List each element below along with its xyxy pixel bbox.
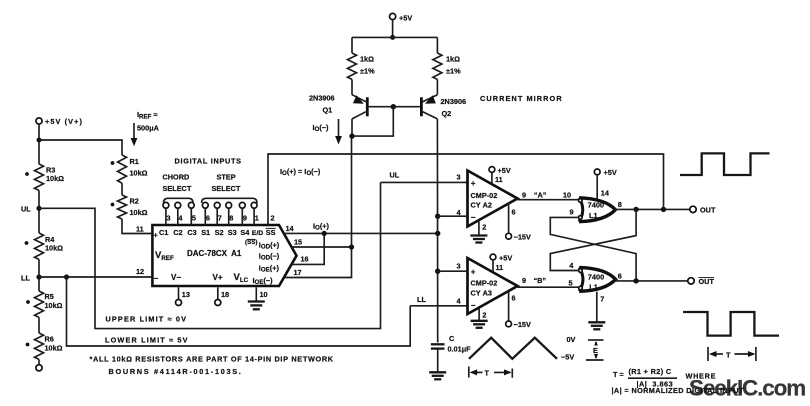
op-amp comparator U A2 CMP-02 (468, 171, 518, 227)
svg-text:C3: C3 (187, 228, 196, 237)
svg-text:1kΩ: 1kΩ (446, 55, 460, 64)
pin 13 V- terminal (176, 287, 190, 305)
resistor 1k 1% right (433, 53, 461, 79)
svg-text:R1: R1 (130, 157, 139, 166)
svg-text:DIGITAL INPUTS: DIGITAL INPUTS (175, 157, 242, 166)
svg-text:16: 16 (301, 255, 309, 264)
wire left rail top (38, 124, 40, 164)
svg-text:S1: S1 (201, 228, 210, 237)
node UL (21, 205, 42, 214)
svg-text:6: 6 (512, 294, 516, 303)
svg-text:10kΩ: 10kΩ (45, 344, 63, 353)
note all 10k resistors (90, 355, 334, 377)
svg-text:±1%: ±1% (446, 67, 461, 76)
wire mirror top rail (352, 36, 437, 38)
DAC A1 DAC-78CX body (152, 225, 296, 286)
input terminals pins 3 4 5 6 7 8 9 1 (163, 202, 259, 225)
svg-text:14: 14 (286, 224, 295, 233)
svg-text:CMP-02: CMP-02 (471, 279, 498, 288)
ground below capacitor (429, 372, 446, 379)
svg-text:R6: R6 (45, 335, 54, 344)
svg-text:+5V: +5V (604, 168, 617, 177)
svg-text:BOURNS #4114R-001-103S.: BOURNS #4114R-001-103S. (109, 367, 243, 376)
node A2 pin4 tap (435, 214, 440, 219)
wire R4 to LL (38, 259, 40, 291)
svg-text:+: + (471, 268, 476, 277)
svg-text:R2: R2 (130, 197, 139, 206)
svg-text:15: 15 (294, 238, 302, 247)
node LL (21, 274, 42, 283)
wire Q1 collector down (351, 119, 353, 136)
svg-text:V+: V+ (213, 273, 223, 282)
svg-text:7: 7 (600, 295, 604, 304)
svg-text:10: 10 (260, 290, 268, 299)
wire R6 to bottom terminal (38, 359, 40, 364)
svg-text:9: 9 (522, 191, 526, 200)
svg-text:OUT: OUT (699, 277, 715, 286)
svg-text:9: 9 (570, 208, 574, 217)
svg-text:10kΩ: 10kΩ (130, 169, 148, 178)
svg-text:0.01μF: 0.01μF (448, 345, 472, 354)
pin 2 SS feedback wire (268, 154, 664, 225)
resistor R4 (25, 233, 64, 259)
svg-text:2N3906: 2N3906 (309, 94, 335, 103)
svg-text:−: − (471, 301, 476, 310)
pin 18 V+ terminal (215, 287, 229, 305)
wire UL to upper limit run (39, 182, 381, 328)
svg-text:3: 3 (457, 262, 461, 271)
power terminal +5V current mirror (390, 13, 413, 22)
wire A3 output "B" to gate pin 5 (518, 276, 579, 288)
svg-text:14: 14 (601, 189, 610, 198)
resistor 1k 1% left (348, 53, 376, 79)
svg-text:11: 11 (136, 225, 144, 234)
svg-text:UL: UL (390, 171, 400, 180)
svg-text:L1: L1 (589, 211, 598, 220)
svg-text:17: 17 (294, 268, 302, 277)
ground A2 pin 2 (470, 221, 487, 243)
op-amp comparator U A3 CMP-02 (468, 258, 518, 314)
svg-text:3: 3 (167, 214, 171, 223)
svg-text:11: 11 (495, 175, 503, 184)
IREF 500uA annotation arrow (131, 110, 160, 146)
svg-text:5: 5 (192, 214, 196, 223)
pin 17 IOE(-) output wire (284, 247, 352, 278)
node LL tap (64, 274, 69, 279)
transistor Q2 2N3906 (421, 95, 466, 119)
pin 14 IOD(+) output wire (284, 224, 438, 233)
svg-text:LOWER LIMIT ≈ 5V: LOWER LIMIT ≈ 5V (105, 336, 189, 345)
node feedback junction top (661, 207, 666, 212)
svg-text:UL: UL (21, 205, 31, 214)
level labels 0V -5V (561, 335, 576, 362)
node IO(+) entry (435, 231, 440, 236)
svg-text:C: C (449, 334, 455, 343)
ground A3 pin 2 (471, 308, 488, 328)
svg-text:Q1: Q1 (323, 106, 333, 115)
svg-text:V−: V− (171, 273, 181, 282)
svg-text:SELECT: SELECT (163, 184, 192, 193)
svg-text:S2: S2 (215, 228, 224, 237)
NAND gate L1a 7400 (579, 198, 616, 222)
svg-text:6: 6 (618, 272, 622, 281)
svg-text:+: + (471, 179, 476, 188)
node pin14/16 junction (322, 231, 327, 236)
svg-text:E: E (593, 346, 598, 355)
svg-text:CMP-02: CMP-02 (471, 191, 498, 200)
waveform triangle (469, 338, 557, 359)
svg-text:2: 2 (271, 214, 275, 223)
svg-text:(SS): (SS) (245, 239, 257, 246)
svg-text:E/D: E/D (252, 230, 263, 237)
IO(-) annotation arrow (313, 119, 342, 145)
svg-text:1kΩ: 1kΩ (360, 55, 374, 64)
svg-text:12: 12 (136, 267, 144, 276)
svg-text:CHORD: CHORD (163, 173, 190, 182)
formula T = (R1+R2)C / |A| 3.863 (612, 367, 744, 395)
svg-text:8: 8 (229, 214, 233, 223)
svg-text:13: 13 (182, 290, 190, 299)
power terminal +5V A2 pin 11 (489, 166, 511, 185)
svg-text:S3: S3 (228, 228, 237, 237)
node junction to R1 branch (37, 138, 42, 143)
svg-text:LL: LL (21, 274, 30, 283)
svg-text:±1%: ±1% (360, 67, 375, 76)
wire +5V down to rail (392, 20, 394, 38)
svg-text:6: 6 (206, 214, 210, 223)
svg-text:DAC-78CX A1: DAC-78CX A1 (187, 249, 242, 258)
wire R3 to UL (38, 190, 40, 233)
resistor R2 (111, 195, 148, 219)
pin 4 wire A2 (438, 208, 468, 217)
svg-text:T: T (726, 350, 731, 359)
svg-text:+5V (V+): +5V (V+) (45, 117, 83, 126)
node L1a output junction (633, 207, 638, 212)
step select bracket (202, 198, 257, 203)
pin 14 +5V terminal L1a (594, 168, 617, 199)
terminal bottom of divider (36, 365, 42, 371)
svg-text:SS: SS (266, 228, 276, 237)
wire branch to R1 chain (39, 140, 122, 155)
wire to right 1k resistor (436, 37, 438, 53)
chord select bracket (164, 198, 194, 203)
wire R5 to R6 (38, 317, 40, 333)
svg-text:4: 4 (457, 296, 462, 305)
svg-text:UPPER LIMIT ≈ 0V: UPPER LIMIT ≈ 0V (106, 315, 188, 324)
svg-text:CY A2: CY A2 (471, 201, 493, 210)
svg-text:10kΩ: 10kΩ (45, 301, 63, 310)
svg-text:2N3906: 2N3906 (441, 97, 467, 106)
terminal OUT bottom (inverted) (688, 277, 715, 286)
svg-text:9: 9 (522, 276, 526, 285)
svg-text:STEP: STEP (217, 173, 236, 182)
svg-text:1: 1 (255, 214, 259, 223)
wire to left 1k resistor (351, 37, 353, 53)
svg-text:T =: T = (613, 370, 624, 379)
svg-text:7400: 7400 (588, 201, 604, 210)
resistor R3 (25, 164, 64, 190)
svg-text:4: 4 (178, 214, 183, 223)
svg-text:18: 18 (221, 290, 229, 299)
terminal OUT top (690, 206, 716, 215)
wire collector-base jog (352, 107, 393, 136)
power terminal +5V A3 pin 11 (490, 253, 512, 272)
wire cap to ground (437, 349, 439, 372)
wire base rail Q1-Q2 (367, 106, 421, 108)
svg-text:10kΩ: 10kΩ (46, 174, 64, 183)
svg-text:+: + (154, 231, 158, 240)
svg-text:SELECT: SELECT (212, 184, 241, 193)
pin 3 wire A3 (438, 262, 468, 272)
wire latch cross B: L1a output to L1b pin 4 (550, 209, 636, 270)
svg-text:IO(+): IO(+) (313, 222, 330, 232)
svg-text:+5V: +5V (399, 14, 412, 23)
svg-text:10kΩ: 10kΩ (130, 208, 148, 217)
power terminal +5V (V+) (36, 117, 83, 126)
svg-text:IO(−): IO(−) (313, 123, 330, 133)
svg-text:7: 7 (218, 214, 222, 223)
node A3 pin3 tap (435, 269, 440, 274)
svg-text:2: 2 (482, 222, 486, 231)
svg-text:0V: 0V (567, 335, 576, 344)
period T measure triangle (469, 367, 513, 378)
wire left 1k to Q1 emitter (351, 79, 353, 94)
svg-text:500μA: 500μA (137, 124, 160, 133)
wire Q2 collector down IO(+) node (436, 119, 438, 343)
svg-text:8: 8 (618, 200, 622, 209)
wire A2 output "A" to gate pin 10 (518, 191, 579, 200)
amplitude E measure (586, 340, 604, 360)
resistor R1 (111, 155, 148, 183)
svg-text:7400: 7400 (588, 272, 604, 281)
svg-text:9: 9 (243, 214, 247, 223)
node base junction (391, 104, 396, 109)
svg-text:2: 2 (482, 311, 486, 320)
svg-text:5: 5 (569, 279, 573, 288)
svg-text:L1: L1 (589, 283, 598, 292)
pin 6 to -15V A2 (506, 204, 531, 242)
pin 7 ground L1b (588, 292, 605, 330)
svg-text:IREF ≈: IREF ≈ (137, 110, 157, 121)
node L1b output junction (633, 278, 638, 283)
svg-text:10kΩ: 10kΩ (45, 244, 63, 253)
svg-text:*ALL 10kΩ RESISTORS ARE PART O: *ALL 10kΩ RESISTORS ARE PART OF 14-PIN D… (90, 355, 334, 364)
svg-text:IO(+) = IO(−): IO(+) = IO(−) (280, 167, 321, 177)
svg-text:11: 11 (496, 263, 504, 272)
node mirror supply junction (390, 35, 395, 40)
svg-text:Q2: Q2 (442, 109, 452, 118)
node Q1 collector junction (349, 133, 354, 138)
pin 10 VLC ground (248, 287, 268, 309)
svg-text:10: 10 (563, 191, 571, 200)
svg-text:−: − (471, 213, 476, 222)
wire IO(-) node vertical (351, 136, 353, 247)
capacitor C 0.01uF (431, 334, 471, 354)
svg-text:SeekIC.com: SeekIC.com (689, 376, 805, 401)
waveform square bottom (683, 312, 779, 336)
DIGITAL INPUTS heading (163, 157, 242, 194)
transistor Q1 2N3906 (309, 94, 367, 119)
svg-text:C2: C2 (173, 228, 182, 237)
svg-text:T: T (485, 369, 490, 378)
wire L1b output to OUT (616, 272, 688, 281)
wire LL to lower limit run (67, 277, 411, 346)
svg-text:−5V: −5V (561, 353, 574, 362)
wire LL to DAC pin 12 (39, 276, 151, 278)
svg-text:CURRENT MIRROR: CURRENT MIRROR (480, 94, 563, 103)
svg-text:“A”: “A” (534, 191, 547, 200)
resistor R6 (26, 333, 63, 359)
svg-text:−15V: −15V (514, 320, 531, 329)
svg-text:6: 6 (512, 207, 516, 216)
svg-text:(R1 + R2) C: (R1 + R2) C (629, 367, 672, 376)
wire R1 to R2 (121, 183, 123, 195)
resistor R5 (26, 291, 63, 317)
LL net label and wire to comparator A3 pin 4 (410, 295, 467, 306)
pin 16 IOE(+) output wire (292, 233, 324, 264)
wire right 1k to Q2 emitter (436, 79, 438, 94)
svg-text:CY A3: CY A3 (471, 289, 493, 298)
period T measure bottom-right (708, 347, 756, 361)
svg-text:−15V: −15V (514, 232, 531, 241)
NAND gate L1b 7400 (579, 267, 616, 291)
pin 15 IOD(-) output wire (292, 238, 352, 248)
wire L1a output to OUT (615, 200, 689, 209)
wire R2 to DAC pin 11 (122, 219, 151, 234)
pin 6 to -15V A3 (506, 291, 531, 329)
svg-text:+5V: +5V (498, 166, 511, 175)
node pin15/17 junction (349, 244, 354, 249)
svg-text:C1: C1 (159, 228, 168, 237)
wire latch cross A: L1b output to L1a pin 9 (550, 217, 636, 281)
svg-text:R5: R5 (45, 292, 54, 301)
svg-text:+5V: +5V (499, 253, 512, 262)
svg-text:“B”: “B” (534, 276, 547, 285)
waveform square top (680, 153, 770, 175)
svg-text:−: − (154, 274, 159, 283)
svg-text:3: 3 (457, 173, 461, 182)
UL net label and wire to comparator A2 pin 3 (381, 171, 468, 183)
svg-text:S4: S4 (240, 228, 250, 237)
svg-text:OUT: OUT (700, 206, 716, 215)
svg-text:4: 4 (569, 261, 574, 270)
svg-text:LL: LL (417, 295, 426, 304)
